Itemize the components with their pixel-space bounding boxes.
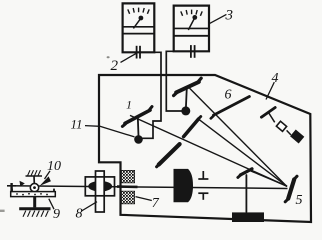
scan speck	[107, 56, 110, 58]
mirror 5	[285, 176, 297, 202]
label 3 pointer	[210, 14, 227, 23]
enclosure housing outline	[99, 75, 311, 222]
meter 2 photocell capacitor symbol	[137, 46, 140, 59]
lamp 10 circle	[30, 183, 38, 191]
svg-text:9: 9	[53, 207, 60, 222]
wire meter3 to vibrator pivot	[166, 51, 183, 111]
svg-text:2: 2	[111, 58, 119, 74]
svg-text:10: 10	[47, 159, 61, 174]
meter 2 needle	[133, 16, 143, 29]
recorder 4 link 2	[287, 130, 291, 135]
mirror 6	[211, 97, 250, 119]
label 4 pointer	[266, 82, 274, 99]
svg-text:11: 11	[71, 117, 83, 132]
svg-text:6: 6	[225, 88, 232, 103]
condenser 8 vertical holder	[96, 171, 105, 212]
meter 2 scale ticks	[128, 8, 149, 14]
vibrator 1 pivot	[134, 135, 143, 144]
galvo base block	[232, 212, 264, 222]
recorder 4 open frame	[276, 121, 286, 131]
lamp rear reflector	[7, 183, 16, 192]
svg-text:5: 5	[296, 193, 303, 208]
condenser 8 horizontal frame	[85, 177, 114, 196]
label 7 pointer	[136, 197, 152, 201]
beam: center galvo to mirror 5	[190, 88, 287, 186]
diaphragm slit	[198, 171, 208, 200]
lamp support hatching	[26, 170, 43, 176]
splitter plate lower segment	[157, 144, 180, 167]
direction arrow near lamp	[20, 181, 25, 187]
beam: small galvo to mirror 5	[249, 170, 286, 186]
table 9 plate	[11, 189, 56, 197]
label 8 pointer	[82, 202, 98, 211]
beam: lamp axis to mirror 5	[8, 186, 288, 189]
beam: mirror 1 to mirror 5	[130, 115, 287, 186]
meter 3 scale ticks	[181, 10, 202, 16]
splitter plate upper segment	[184, 117, 201, 137]
filter block 7 in wall	[121, 170, 134, 203]
recorder 4 axis link	[269, 113, 275, 123]
svg-text:8: 8	[76, 207, 83, 222]
label 10 pointer	[45, 171, 51, 179]
label 9 pointer	[49, 199, 54, 210]
svg-text:4: 4	[272, 71, 279, 86]
vibrator mirror 1	[122, 107, 152, 136]
photo recorder 4: mirror bar	[261, 108, 275, 118]
ground hatching under 9	[23, 211, 48, 217]
wire meter2 to vibrator 1 pivot	[140, 52, 161, 138]
scan mark at left edge	[0, 210, 5, 212]
label 11 pointer	[85, 126, 135, 137]
meter 3 body	[174, 6, 209, 52]
label 2 pointer	[121, 53, 137, 62]
svg-text:3: 3	[225, 8, 234, 24]
table 9 pedestal	[19, 197, 50, 209]
meter 3 needle	[188, 15, 197, 30]
meter 2 body	[123, 3, 155, 52]
svg-text:7: 7	[152, 196, 160, 211]
center galvo pivot	[181, 106, 190, 115]
beam: splitter to mirror 5	[198, 119, 287, 187]
lamp stem	[33, 176, 35, 184]
condenser lens (black)	[174, 169, 194, 202]
small galvo mirror on post	[238, 169, 252, 212]
svg-text:1: 1	[126, 98, 132, 112]
condenser 8 lens ellipse	[88, 181, 112, 192]
meter 3 photocell capacitor symbol	[191, 45, 195, 58]
label 10 arrowhead	[40, 176, 51, 186]
beam through filter slot	[117, 185, 138, 188]
recorder 4 black unit	[290, 130, 304, 144]
vibrator mirror (center galvo)	[174, 78, 202, 108]
